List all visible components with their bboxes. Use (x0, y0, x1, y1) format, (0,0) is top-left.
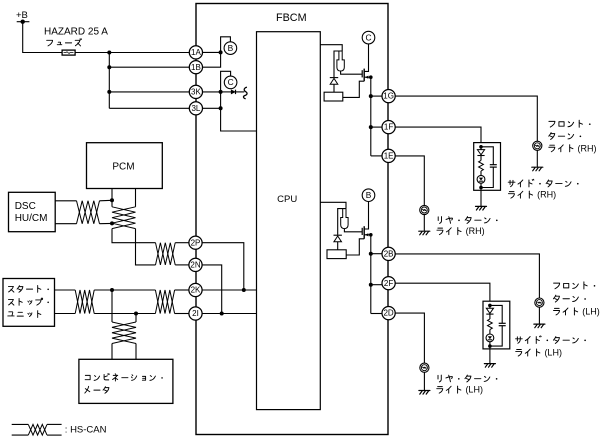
pin 3K (189, 85, 202, 98)
label side turn LH line2 (516, 349, 540, 356)
twisted pair start-stop (75, 290, 94, 314)
junction power bus (107, 51, 111, 55)
svg-text:2P: 2P (191, 238, 201, 247)
wire 2F to side assembly LH (395, 283, 490, 301)
label front turn RH line1 (549, 120, 591, 127)
node ref C circle (224, 76, 237, 89)
wire led branch (480, 147, 482, 161)
wire lamp to ground (423, 372, 425, 390)
ground rear LH (419, 391, 430, 395)
wire to pin 1B (109, 66, 189, 68)
wire PCM CAN-H down (111, 189, 113, 207)
junction meter CAN-H (110, 288, 114, 292)
wire source (364, 76, 371, 78)
junction node C (219, 90, 223, 94)
wire to break (236, 91, 245, 93)
ground front LH (534, 324, 545, 328)
wire led out (480, 183, 482, 187)
svg-text:1A: 1A (191, 48, 201, 57)
wire +B to fuse (23, 22, 62, 53)
svg-text:(RH): (RH) (578, 143, 597, 153)
wire drain to ref (364, 44, 368, 71)
junction rail a (369, 252, 373, 256)
label front turn RH line2 (549, 133, 581, 140)
wire start-stop CAN-L (55, 313, 76, 315)
wire branch to clamp (334, 51, 342, 77)
wire into meter H (111, 344, 113, 360)
junction 3K feed (107, 90, 111, 94)
node ref C circle (362, 31, 375, 44)
wire 1A to internal node (203, 51, 221, 53)
pin 1E (382, 149, 395, 162)
wire DSC-L to junction (100, 222, 113, 224)
svg-text:(RH): (RH) (537, 190, 556, 200)
diode RH (477, 150, 484, 155)
pin 2I (189, 307, 202, 320)
wire to led (489, 330, 491, 334)
svg-text:HAZARD 25 A: HAZARD 25 A (44, 27, 108, 38)
pin 2N (189, 258, 202, 271)
junction lamp out (488, 344, 492, 348)
legend twisted pair symbol (12, 423, 29, 425)
wire 3K-3L jumper (220, 92, 222, 108)
wire rail to pin b (371, 284, 382, 286)
pin 1A (189, 46, 202, 59)
lamp front turn LH (535, 298, 544, 307)
wire source rail (370, 77, 372, 156)
label front turn LH line3 (554, 308, 578, 315)
wire to meter junction L (94, 313, 136, 315)
resistor LH (488, 319, 493, 330)
svg-text:2N: 2N (190, 261, 200, 270)
svg-text:+B: +B (16, 10, 28, 21)
junction source (369, 75, 373, 79)
twisted pair DSC (77, 201, 100, 224)
label front turn LH line2 (553, 295, 585, 302)
ground front RH (532, 167, 543, 171)
lamp front turn RH (533, 141, 542, 150)
capacitor LH (499, 322, 506, 324)
svg-text:FBCM: FBCM (276, 12, 307, 24)
resistor RH (479, 160, 484, 171)
diode LH (486, 308, 493, 313)
junction rail b (369, 125, 373, 129)
junction meter CAN-L (134, 312, 138, 316)
svg-text:(RH): (RH) (466, 226, 485, 236)
combination meter box (79, 359, 173, 403)
wire 2I to CPU (202, 313, 256, 315)
wire stub to ref B (221, 37, 231, 53)
wire driver to gate (341, 71, 362, 74)
wire 1E to rear turn light RH (395, 156, 424, 206)
label rear turn LH line2 (437, 386, 461, 393)
wire into meter L (135, 344, 137, 360)
junction DSC CAN-L (110, 221, 114, 225)
wire CAN-L to 2I twist (136, 313, 155, 315)
pin 2F (382, 277, 395, 290)
gate driver symbol (341, 209, 348, 229)
wire DSC CAN-H (55, 200, 76, 202)
svg-text:3L: 3L (191, 104, 200, 113)
svg-text:1E: 1E (384, 152, 394, 161)
wire 2N jumper to 2I row (202, 265, 222, 314)
label side turn RH line1 (508, 179, 578, 187)
svg-text:CPU: CPU (277, 194, 297, 205)
junction lamp in (488, 304, 492, 308)
junction lamp in (479, 145, 483, 149)
wire 2K to CPU (202, 289, 256, 291)
label rear turn RH line1 (438, 217, 497, 224)
wire drain to ref (364, 202, 368, 229)
wire PCM CAN-L down (135, 189, 137, 207)
node ref B circle (362, 189, 375, 202)
pin 2B (382, 247, 395, 260)
svg-text:B: B (228, 43, 234, 53)
side turn light RH box (474, 143, 501, 191)
label front turn RH line3 (549, 145, 573, 152)
meter label line1 (85, 374, 163, 381)
wire hazard sense to CPU (221, 108, 257, 131)
pin 2D (382, 307, 395, 320)
wire 2P jumper to 2K row (202, 243, 244, 290)
twisted pair to 2P/2N (156, 243, 176, 265)
break squiggle (243, 87, 247, 99)
junction DSC CAN-H (110, 198, 114, 202)
junction source (369, 233, 373, 237)
ground rear RH (419, 231, 430, 235)
twisted pair to 2K/2I (155, 290, 174, 314)
gate driver symbol (337, 51, 344, 71)
wire source (364, 234, 371, 236)
wire diode to sense block (333, 84, 335, 92)
wire rail to pin a (371, 95, 382, 97)
wire rail to pin a (371, 253, 382, 255)
wire rail to pin c (371, 313, 382, 315)
wire stub to ref C (221, 71, 231, 92)
start-stop label line2 (8, 298, 48, 305)
MOSFET C (361, 70, 363, 77)
wire CAN-L to 2N row (136, 229, 156, 265)
wire lamp to ground (423, 215, 425, 231)
junction CAN-L (220, 312, 224, 316)
ground side RH (476, 206, 487, 210)
wire twist to 2K (175, 289, 189, 291)
wire 3L stub (203, 107, 221, 109)
svg-text:2D: 2D (383, 309, 393, 318)
wire lamp to ground (536, 150, 538, 167)
twisted pair meter vertical (112, 322, 136, 344)
capacitor RH (490, 164, 497, 166)
pin 1G (382, 90, 395, 103)
PCM box (87, 143, 163, 189)
wire 1F to side assembly RH (395, 127, 481, 143)
wire diode to sense block (337, 242, 339, 250)
wire DSC CAN-L (55, 223, 76, 225)
wire CAN-H to 2K twist (112, 289, 155, 291)
fuse HAZARD 25 A (62, 50, 75, 55)
svg-text:C: C (228, 77, 234, 87)
wire 1A-1B jumper (203, 52, 221, 67)
svg-text:(LH): (LH) (544, 348, 562, 358)
CPU U1 box (257, 32, 321, 410)
wire twist to 2I (175, 313, 189, 315)
wire twist to 2N (175, 264, 189, 266)
svg-text:DSC: DSC (15, 201, 36, 212)
wire DSC-H to junction (100, 199, 113, 202)
svg-text:1F: 1F (384, 123, 393, 132)
wire branch to clamp (338, 209, 346, 235)
junction rail b (369, 283, 373, 287)
pin 1B (189, 61, 202, 74)
svg-text:PCM: PCM (112, 161, 134, 172)
wire CPU to driver B (320, 202, 346, 208)
wire meter CAN-H down (111, 290, 113, 322)
LED LH (486, 334, 494, 342)
wire lamp to ground (538, 307, 540, 324)
label side turn LH line1 (516, 336, 586, 344)
wire led branch (489, 305, 491, 319)
twisted pair PCM vertical (112, 207, 136, 229)
svg-text:2I: 2I (192, 309, 199, 318)
svg-text:3K: 3K (191, 88, 201, 97)
FBCM module box (196, 4, 388, 435)
wire to pin 3L (109, 107, 189, 109)
junction lamp out (479, 186, 483, 190)
junction rail a (369, 94, 373, 98)
svg-text:2K: 2K (191, 286, 201, 295)
svg-text:HU/CM: HU/CM (15, 213, 48, 224)
svg-text:2F: 2F (384, 279, 393, 288)
MOSFET B (361, 228, 363, 235)
ground side LH (484, 364, 495, 368)
current sense block (324, 92, 343, 101)
svg-text:1B: 1B (191, 63, 201, 72)
capacitor branch wire (490, 305, 502, 323)
lamp rear turn RH (420, 205, 429, 214)
pin 1F (382, 121, 395, 134)
lamp rear turn LH (420, 363, 429, 372)
svg-text:1G: 1G (383, 92, 394, 101)
wire fuse to pin 1A (75, 52, 189, 54)
wire meter CAN-L down (135, 314, 137, 323)
label rear turn RH line2 (437, 228, 461, 235)
wire to led (480, 171, 482, 175)
start-stop label line3 (8, 311, 41, 318)
junction 1B feed (107, 65, 111, 69)
pin 2K (189, 283, 202, 296)
wire led out (489, 342, 491, 346)
junction node B (219, 50, 223, 54)
wire rail to pin c (371, 155, 382, 157)
svg-text:B: B (366, 190, 372, 200)
wire to meter junction H (94, 289, 112, 291)
wire 3K to internal node (203, 91, 221, 93)
wire source rail (370, 235, 372, 314)
svg-text:(LH): (LH) (582, 307, 600, 317)
label rear turn LH line1 (438, 375, 497, 382)
wire to ground (480, 188, 482, 207)
DSC HU/CM box (9, 192, 56, 231)
power bus vertical wire (108, 53, 110, 109)
current sense block (327, 250, 346, 259)
wire sense output (343, 81, 364, 97)
svg-text:C: C (365, 32, 371, 42)
wire driver to gate (344, 229, 362, 232)
wire sense output (346, 239, 364, 255)
capacitor branch wire (481, 147, 493, 165)
LED RH (477, 175, 485, 183)
wire start-stop CAN-H (55, 289, 76, 291)
wire CPU to driver C (320, 45, 342, 51)
label side turn RH line2 (508, 191, 532, 198)
wire to pin 3K (109, 91, 189, 93)
wire 2D to rear turn light LH (395, 313, 424, 363)
label fuse (katakana) (47, 39, 82, 46)
wire 1G to front turn light RH (395, 96, 537, 141)
svg-text:: HS-CAN: : HS-CAN (65, 425, 107, 436)
node ref B circle (224, 42, 237, 55)
zener diode (330, 77, 338, 79)
wire CAN-H to 2P row (112, 229, 156, 243)
wire 3K to hazard switch (221, 91, 232, 93)
meter label line2 (85, 386, 109, 393)
pin 3L (189, 102, 202, 115)
side turn light LH box (483, 301, 510, 349)
label front turn LH line1 (554, 282, 596, 289)
svg-text:2B: 2B (384, 250, 394, 259)
junction CAN-H (242, 288, 246, 292)
start-stop label line1 (8, 285, 48, 292)
pin 2P (189, 236, 202, 249)
junction 3L (219, 106, 223, 110)
wire to ground (489, 346, 491, 364)
svg-text:(LH): (LH) (465, 385, 483, 395)
wire twist to 2P (175, 242, 189, 244)
wire rail to pin b (371, 126, 382, 128)
start-stop unit box (3, 279, 55, 327)
connector arrow (231, 90, 235, 94)
zener diode (334, 234, 342, 236)
wire 2B to front turn light LH (395, 254, 539, 298)
